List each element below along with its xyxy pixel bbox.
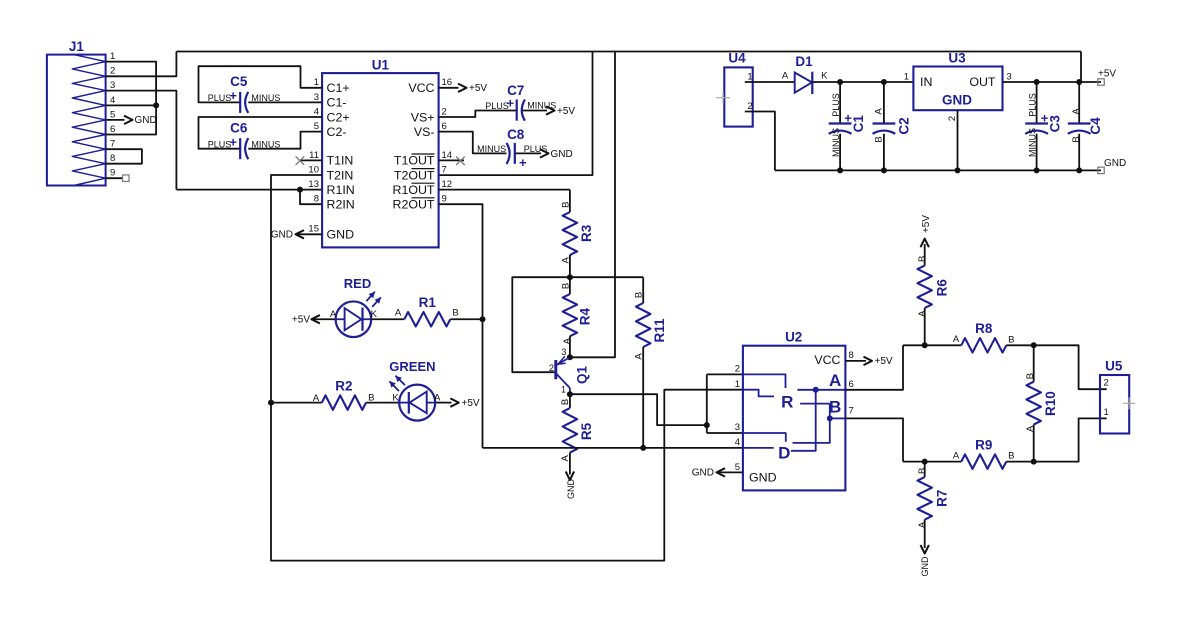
svg-text:4: 4 <box>735 437 740 448</box>
svg-text:C2+: C2+ <box>327 110 350 124</box>
svg-text:U5: U5 <box>1105 359 1123 374</box>
svg-text:D: D <box>778 443 790 462</box>
svg-text:R1OUT: R1OUT <box>393 183 435 197</box>
svg-text:MINUS: MINUS <box>527 101 556 111</box>
svg-text:1: 1 <box>561 385 566 395</box>
svg-text:PLUS: PLUS <box>831 93 841 117</box>
svg-text:T1IN: T1IN <box>327 154 354 168</box>
svg-text:B: B <box>1025 373 1036 379</box>
svg-text:C8: C8 <box>507 127 525 142</box>
svg-text:R: R <box>781 393 793 412</box>
svg-text:R1: R1 <box>419 295 437 310</box>
svg-text:1: 1 <box>904 71 909 82</box>
svg-text:MINUS: MINUS <box>251 139 280 149</box>
svg-text:R2: R2 <box>335 378 352 393</box>
svg-text:OUT: OUT <box>969 75 996 89</box>
svg-text:R7: R7 <box>935 490 950 507</box>
svg-text:B: B <box>560 283 571 289</box>
svg-text:7: 7 <box>849 406 854 417</box>
svg-text:D1: D1 <box>795 54 813 69</box>
svg-text:8: 8 <box>849 350 854 361</box>
svg-text:2: 2 <box>110 66 115 77</box>
svg-text:2: 2 <box>947 116 958 121</box>
svg-text:T1OUT: T1OUT <box>394 154 435 168</box>
svg-text:GND: GND <box>271 230 293 241</box>
svg-text:6: 6 <box>849 379 854 390</box>
svg-text:R8: R8 <box>975 321 993 336</box>
svg-text:3: 3 <box>314 92 319 103</box>
svg-text:A: A <box>782 71 789 82</box>
svg-text:B: B <box>1071 136 1082 142</box>
svg-text:A: A <box>829 371 841 390</box>
svg-text:B: B <box>873 136 884 142</box>
svg-text:16: 16 <box>442 77 453 88</box>
svg-text:A: A <box>313 393 320 404</box>
svg-text:A: A <box>953 450 960 461</box>
svg-text:1: 1 <box>110 51 115 62</box>
svg-text:B: B <box>633 292 644 298</box>
svg-text:7: 7 <box>442 164 447 175</box>
svg-text:GND: GND <box>942 93 972 108</box>
svg-text:5: 5 <box>110 109 115 120</box>
svg-text:GND: GND <box>135 115 157 126</box>
svg-text:2: 2 <box>549 363 554 373</box>
svg-text:8: 8 <box>314 194 319 205</box>
svg-text:15: 15 <box>308 224 319 235</box>
svg-text:U3: U3 <box>948 51 966 66</box>
svg-text:A: A <box>1025 425 1036 432</box>
svg-text:A: A <box>873 108 884 115</box>
svg-text:R2OUT: R2OUT <box>393 198 435 212</box>
svg-text:3: 3 <box>110 80 115 91</box>
svg-text:C3: C3 <box>1048 115 1063 133</box>
svg-text:R11: R11 <box>652 318 667 343</box>
svg-text:5: 5 <box>735 462 740 473</box>
svg-text:MINUS: MINUS <box>831 128 841 157</box>
svg-text:K: K <box>821 71 828 82</box>
svg-text:RED: RED <box>344 276 371 291</box>
svg-text:+: + <box>519 155 527 170</box>
svg-text:14: 14 <box>442 150 453 161</box>
svg-text:IN: IN <box>920 75 932 89</box>
svg-text:GND: GND <box>692 468 714 479</box>
svg-text:+5V: +5V <box>557 106 575 117</box>
svg-text:C2-: C2- <box>327 125 347 139</box>
svg-text:R10: R10 <box>1043 391 1058 416</box>
svg-text:B: B <box>560 399 571 405</box>
svg-text:1: 1 <box>1104 407 1109 418</box>
svg-text:5: 5 <box>314 121 319 132</box>
svg-text:VS+: VS+ <box>411 110 435 124</box>
svg-text:PLUS: PLUS <box>208 93 232 103</box>
svg-text:C1+: C1+ <box>327 81 350 95</box>
svg-text:GND: GND <box>327 228 355 242</box>
svg-text:A: A <box>562 337 573 344</box>
svg-text:+: + <box>229 88 237 103</box>
svg-text:R4: R4 <box>577 307 592 325</box>
svg-text:MINUS: MINUS <box>1028 128 1038 157</box>
svg-text:C2: C2 <box>896 117 911 134</box>
svg-text:J1: J1 <box>69 39 85 54</box>
svg-text:R6: R6 <box>935 279 950 297</box>
svg-text:PLUS: PLUS <box>485 101 509 111</box>
svg-text:9: 9 <box>442 194 447 205</box>
svg-text:4: 4 <box>110 95 115 106</box>
svg-text:C4: C4 <box>1088 117 1103 135</box>
svg-text:B: B <box>829 398 841 417</box>
svg-text:A: A <box>953 334 960 345</box>
svg-text:PLUS: PLUS <box>208 139 232 149</box>
svg-text:B: B <box>560 202 571 208</box>
svg-text:12: 12 <box>442 179 453 190</box>
svg-text:MINUS: MINUS <box>251 93 280 103</box>
svg-text:4: 4 <box>314 106 319 117</box>
svg-text:+5V: +5V <box>462 398 480 409</box>
svg-text:+5V: +5V <box>469 83 487 94</box>
svg-text:R2IN: R2IN <box>327 198 355 212</box>
svg-text:2: 2 <box>1104 377 1109 388</box>
svg-text:B: B <box>917 468 928 474</box>
svg-text:MINUS: MINUS <box>477 144 506 154</box>
svg-text:VCC: VCC <box>814 353 840 367</box>
svg-text:A: A <box>917 521 928 528</box>
svg-text:U4: U4 <box>728 51 746 66</box>
svg-text:+5V: +5V <box>292 315 310 326</box>
svg-text:A: A <box>560 454 571 461</box>
svg-text:3: 3 <box>561 347 566 357</box>
svg-text:R1IN: R1IN <box>327 183 355 197</box>
svg-text:1: 1 <box>747 71 752 82</box>
svg-text:3: 3 <box>1007 71 1012 82</box>
svg-text:GND: GND <box>749 471 777 485</box>
svg-text:2: 2 <box>735 364 740 375</box>
svg-text:B: B <box>917 256 928 262</box>
svg-text:T2IN: T2IN <box>327 168 354 182</box>
svg-text:+5V: +5V <box>1098 69 1116 80</box>
svg-text:B: B <box>1008 450 1014 461</box>
svg-text:GND: GND <box>1104 158 1126 169</box>
svg-text:C1-: C1- <box>327 96 347 110</box>
svg-text:13: 13 <box>308 179 319 190</box>
svg-text:PLUS: PLUS <box>524 144 548 154</box>
svg-text:1: 1 <box>314 77 319 88</box>
svg-text:R3: R3 <box>579 224 594 242</box>
svg-text:2: 2 <box>747 101 752 112</box>
svg-text:U2: U2 <box>785 330 802 345</box>
svg-text:GND: GND <box>551 149 573 160</box>
svg-text:GND: GND <box>566 479 576 500</box>
svg-text:T2OUT: T2OUT <box>394 168 435 182</box>
svg-text:GND: GND <box>920 556 930 577</box>
svg-text:U1: U1 <box>372 58 390 73</box>
svg-text:3: 3 <box>735 422 740 433</box>
svg-text:10: 10 <box>308 164 319 175</box>
svg-text:B: B <box>1008 334 1014 345</box>
svg-text:A: A <box>395 308 402 319</box>
svg-text:PLUS: PLUS <box>1028 93 1038 117</box>
svg-text:A: A <box>633 353 644 360</box>
svg-text:+5V: +5V <box>921 215 932 233</box>
svg-text:7: 7 <box>110 139 115 150</box>
svg-text:A: A <box>560 256 571 263</box>
svg-text:2: 2 <box>442 106 447 117</box>
svg-text:+: + <box>507 95 515 110</box>
svg-text:9: 9 <box>110 168 115 179</box>
svg-text:K: K <box>392 392 399 403</box>
svg-text:A: A <box>917 310 928 317</box>
svg-text:C5: C5 <box>230 74 248 89</box>
svg-text:B: B <box>452 308 458 319</box>
svg-text:Q1: Q1 <box>574 366 589 385</box>
svg-text:VCC: VCC <box>408 81 434 95</box>
svg-text:C1: C1 <box>851 115 866 133</box>
svg-text:11: 11 <box>309 150 319 161</box>
svg-text:6: 6 <box>110 124 115 135</box>
svg-text:A: A <box>1071 108 1082 115</box>
svg-text:GREEN: GREEN <box>389 359 435 374</box>
svg-text:1: 1 <box>735 379 740 390</box>
svg-text:R9: R9 <box>975 437 992 452</box>
svg-text:R5: R5 <box>579 422 594 440</box>
svg-text:A: A <box>330 309 337 320</box>
svg-text:8: 8 <box>110 153 115 164</box>
svg-text:VS-: VS- <box>414 125 435 139</box>
svg-text:6: 6 <box>442 121 447 132</box>
svg-text:+5V: +5V <box>875 356 893 367</box>
svg-text:+: + <box>229 134 237 149</box>
